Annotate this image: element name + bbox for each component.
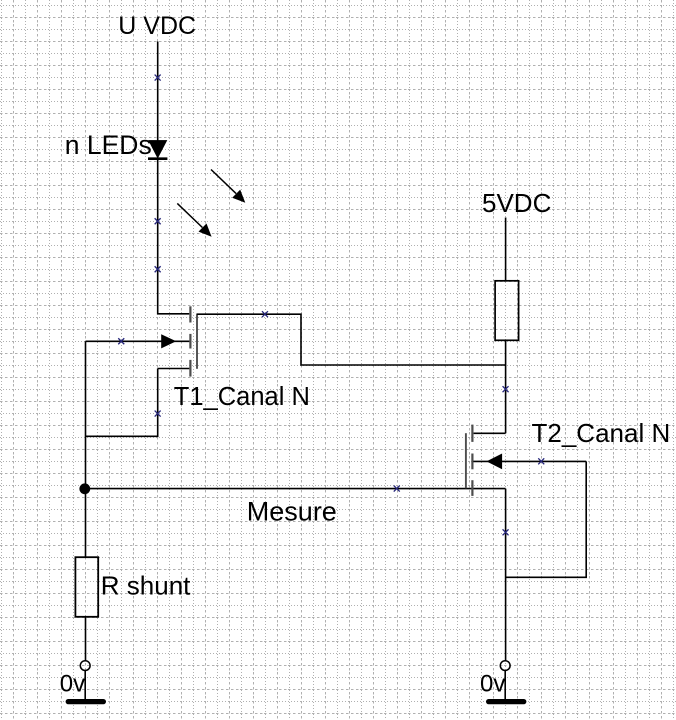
T2 drain stub	[474, 432, 506, 434]
wire R shunt to terminal	[85, 617, 87, 661]
LED diode cathode bar	[148, 157, 167, 160]
pin marker x10	[503, 529, 509, 535]
pin marker x5	[262, 311, 268, 317]
svg-text:0v: 0v	[60, 671, 85, 698]
pin marker x9	[394, 486, 400, 492]
LED light arrow 1	[211, 170, 245, 203]
ground bar right	[489, 699, 524, 704]
svg-text:5VDC: 5VDC	[482, 188, 551, 218]
resistor body (5VDC pull-up)	[495, 281, 518, 341]
svg-text:T2_Canal N: T2_Canal N	[532, 418, 671, 448]
wire T2 source down to terminal	[505, 489, 507, 661]
pin marker x3	[155, 266, 161, 272]
wire from U VDC to LED anode	[157, 42, 159, 141]
svg-text:n LEDs: n LEDs	[65, 130, 152, 160]
wire Mesure node down to R shunt	[85, 489, 87, 557]
wire LED cathode down to T1 drain	[158, 159, 190, 314]
LED diode triangle (n LEDs)	[149, 140, 167, 158]
T1 bulk arrow wire	[86, 340, 190, 342]
pin marker x7	[503, 386, 509, 392]
svg-text:R shunt: R shunt	[101, 571, 191, 601]
ground bar left	[68, 699, 103, 704]
junction dot (Mesure node)	[79, 483, 90, 494]
transistor T2 channel bar segments	[471, 425, 473, 496]
T1 source stub	[158, 368, 190, 370]
wire T1 gate to 5VDC node	[197, 314, 506, 365]
svg-text:Mesure: Mesure	[247, 496, 337, 526]
svg-text:T1_Canal N: T1_Canal N	[174, 383, 310, 411]
wire T2 bulk loop to source node	[506, 461, 587, 577]
transistor T1 gate line	[196, 314, 198, 369]
wire terminal to ground	[504, 671, 506, 700]
pin marker x1	[155, 75, 161, 81]
pin marker x6	[155, 411, 161, 417]
pin marker x4	[118, 338, 124, 344]
left terminal circle	[80, 661, 90, 671]
transistor T2 gate line	[465, 433, 467, 488]
LED light arrow 2	[177, 203, 211, 236]
wire terminal to ground	[84, 671, 86, 700]
pin marker x2	[155, 218, 161, 224]
svg-text:0v: 0v	[480, 671, 505, 698]
wire T1 bulk down to junction	[85, 341, 87, 488]
wire 5VDC to resistor	[505, 218, 507, 281]
right terminal circle	[500, 661, 510, 671]
pin marker x8	[538, 458, 544, 464]
T1 bulk arrowhead	[161, 334, 176, 348]
T2 bulk arrow wire	[473, 460, 586, 462]
wire T1 source down and left	[86, 369, 158, 437]
T2 bulk arrowhead	[487, 454, 503, 470]
svg-text:U VDC: U VDC	[118, 12, 196, 40]
wire Mesure	[86, 488, 506, 490]
resistor R shunt body	[75, 557, 98, 617]
wire resistor to T2 drain	[505, 340, 507, 433]
transistor T1 channel bar segments	[189, 306, 191, 376]
